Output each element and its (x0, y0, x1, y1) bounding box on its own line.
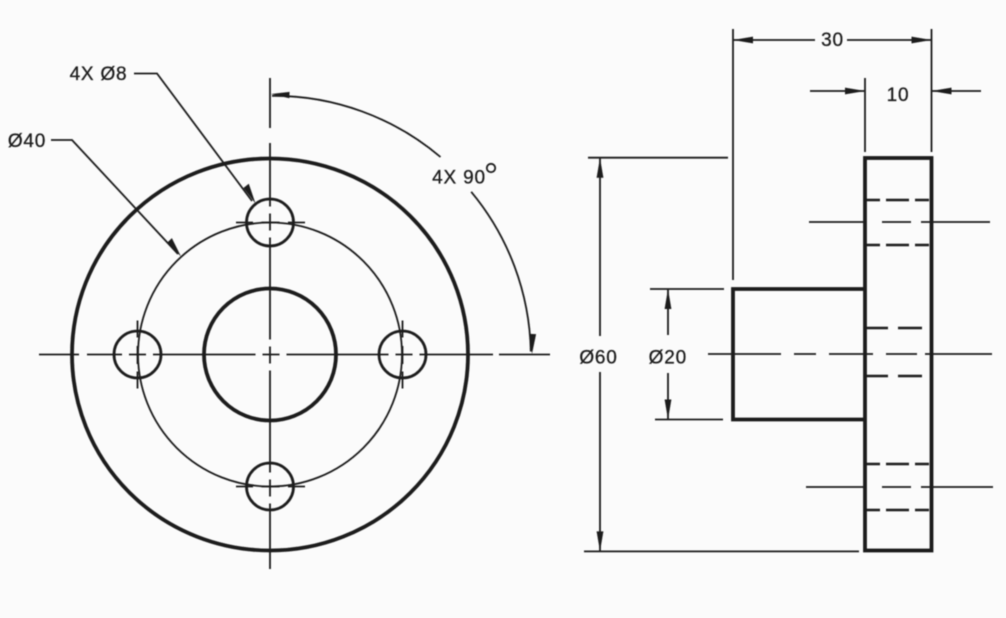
dimension 10: extension line (864, 78, 866, 152)
left view bolt circle (thin, BC dia 40) (138, 223, 402, 487)
bolt hole top (247, 199, 294, 246)
svg-text:4X Ø8: 4X Ø8 (70, 64, 128, 85)
crosshair ticks, right bolt hole (402, 321, 404, 389)
arrowhead dia20 bottom (665, 400, 672, 420)
dimension 30: extension line right (931, 29, 933, 152)
bolt hole left (114, 331, 161, 378)
angular dimension arc 4X 90 (272, 96, 441, 157)
svg-text:Ø60: Ø60 (579, 348, 617, 369)
vertical centerline of left view (269, 78, 271, 569)
hidden line bottom hole lower edge (865, 509, 929, 512)
dimension 30: dimension line (733, 39, 932, 41)
svg-text:Ø40: Ø40 (8, 131, 46, 152)
right view plate rectangle (865, 158, 932, 551)
left view outer circle (flange OD) (72, 159, 468, 551)
crosshair ticks, bottom bolt hole (236, 486, 305, 488)
leader line for 4X dia8 label (134, 74, 252, 202)
dimension 30: extension line left (732, 29, 734, 280)
hidden line center upper (866, 327, 922, 330)
right view bottom hole centerline (806, 486, 993, 488)
arrowhead leader 4X dia8 (241, 183, 258, 203)
arrowhead leader dia40 (166, 238, 183, 257)
bolt hole right (379, 331, 426, 378)
dimension dia60: extension line bottom (584, 550, 859, 552)
right view main centerline (708, 353, 992, 355)
left view center boss circle (dia 20) (204, 289, 336, 421)
arrowhead 30 right (912, 37, 932, 44)
dimension dia60: extension line top (588, 157, 728, 159)
right view top hole centerline (809, 221, 990, 223)
dimension dia60: dimension line (599, 158, 601, 552)
hidden line top hole upper edge (865, 199, 929, 202)
dimension dia20: extension line top (650, 288, 724, 290)
arrowhead angular bottom (529, 334, 536, 354)
leader line for dia40 label (51, 140, 178, 254)
arrowhead dia60 top (597, 158, 604, 178)
right view boss outline (733, 289, 865, 420)
arrowhead dia60 bottom (597, 531, 604, 551)
svg-text:10: 10 (887, 85, 910, 106)
arrowhead 30 left (733, 37, 753, 44)
svg-text:4X 90: 4X 90 (432, 168, 486, 189)
bolt hole bottom (247, 463, 294, 510)
dimension 10: arrow tails (810, 90, 981, 92)
svg-text:30: 30 (821, 30, 844, 51)
hidden line center lower (866, 375, 922, 378)
arrowhead angular top (271, 91, 290, 98)
dimension dia20: dimension line (667, 289, 669, 420)
crosshair ticks, left bolt hole (137, 321, 139, 389)
crosshair ticks, top bolt hole (236, 222, 305, 224)
dimension dia20: extension line bottom (655, 419, 723, 421)
arrowhead 10 left (845, 88, 865, 95)
svg-text:Ø20: Ø20 (649, 348, 687, 369)
hidden line bottom hole upper edge (865, 463, 929, 466)
horizontal centerline of left view (39, 354, 550, 356)
arrowhead 10 right (932, 88, 952, 95)
arrowhead dia20 top (665, 289, 672, 309)
degree symbol of 4X 90 (487, 164, 495, 172)
hidden line top hole lower edge (865, 244, 929, 247)
